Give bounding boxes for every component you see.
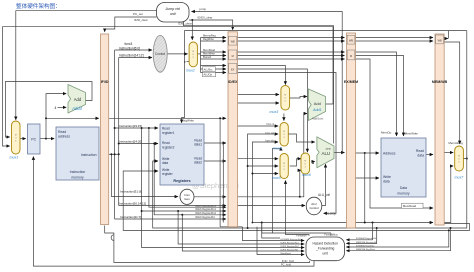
wire Instruction[19:15] to Read register1 [115,127,158,129]
read data to mux7 [445,152,454,154]
svg-text:PC_sel: PC_sel [133,12,143,16]
svg-text:register2: register2 [162,146,175,150]
ALUOp wire to ALU ctrl [238,73,337,214]
EX/MEM write data to data memory [356,177,380,179]
svg-text:ID/EX_clear: ID/EX_clear [198,16,213,20]
svg-text:Add1: Add1 [312,108,322,112]
wire bubble select to mux2 [191,20,193,40]
mux1 (PC source) [12,121,21,154]
wire mux1 to PC [20,138,26,140]
svg-text:ID/EX.RegisterRs1: ID/EX.RegisterRs1 [281,241,300,244]
svg-text:data: data [383,180,390,184]
svg-text:Instruction[19:15]: Instruction[19:15] [119,124,142,128]
svg-text:EX/MEM.RegisterRd: EX/MEM.RegisterRd [356,237,377,240]
svg-text:EX/MEM.RegWrite: EX/MEM.RegWrite [356,244,375,247]
instruction trunk wire 3 [110,154,112,196]
WB signals EX/MEM to MEM/WB [356,37,434,39]
svg-text:WB: WB [231,41,235,44]
ALUSrc to mux6 [238,66,286,85]
hazard unit inputs from ID/EX fields [242,227,304,241]
wire IF/ID_clear from Jump ctrl unit to IF/ID register [105,17,157,32]
svg-text:MemWrite: MemWrite [203,52,215,56]
svg-text:WB: WB [349,40,353,43]
svg-text:ALU_ctrl: ALU_ctrl [318,193,331,197]
WB signals ID/EX to EX/MEM [238,37,345,39]
wire Imm Gen to ID/EX [194,196,226,198]
svg-text:ID/EX.RegisterRs2: ID/EX.RegisterRs2 [195,212,217,215]
svg-text:ALU: ALU [322,151,331,156]
svg-text:Control: Control [155,52,166,56]
wire PC_sel from Jump ctrl unit to mux1 [16,11,157,120]
svg-text:EX: EX [231,68,235,71]
instruction trunk wire 2 [118,58,120,206]
svg-text:MemWrite: MemWrite [405,132,419,136]
pipeline register IF/ID [101,34,109,225]
ALU result bypass to MEM/WB [365,153,433,223]
svg-text:from rs: from rs [266,123,275,126]
forwarded from wb to mux4 [248,134,279,228]
wire PC to Add [46,94,66,119]
hop over [111,235,114,241]
svg-text:jump: jump [325,148,332,151]
ALU ctrl function input [238,205,306,207]
svg-text:MEM/WB.RegWrite: MEM/WB.RegWrite [356,248,376,251]
constant 4 into Add [58,106,67,108]
ALU output to EX/MEM [334,152,345,154]
svg-text:ID/EX.RegisterRs1: ID/EX.RegisterRs1 [195,208,217,211]
svg-text:MemRead: MemRead [281,253,292,255]
wire Instruction[6:0] to Control [115,49,152,51]
registers file [160,124,204,185]
wire rs1 tap to ID/EX [142,128,226,211]
svg-text:MEM/WB: MEM/WB [432,80,448,84]
register PC [28,124,41,154]
mux7 output writeback [153,159,467,229]
svg-text:mux2: mux2 [186,69,195,73]
wire Instruction[24:20] to Read register2 [119,143,158,145]
svg-text:M: M [350,55,352,58]
svg-text:M: M [192,51,194,53]
ALU ctrl output to ALU [322,164,326,205]
svg-text:mux5: mux5 [272,176,281,180]
M signals ID/EX to EX/MEM [238,51,345,53]
wire Control to mux2 [167,53,187,55]
MEM/WB RegisterRd feedback to write register [123,171,469,230]
svg-text:IF/ID_hold: IF/ID_hold [282,259,295,263]
svg-text:memory: memory [71,176,84,180]
MemOp / MemWrite to data memory [356,52,397,136]
svg-text:MemOp: MemOp [381,130,392,134]
wire branch target feedback from AddSum to mux1 [326,27,334,104]
svg-text:from wb: from wb [265,132,275,135]
svg-text:Read: Read [416,149,424,153]
svg-text:mux3: mux3 [270,110,279,114]
EX/MEM WB box [347,35,355,44]
wire jump from ALU output to Jump ctrl unit [192,12,343,153]
svg-text:IF/ID: IF/ID [101,80,109,84]
svg-text:MemRead: MemRead [203,48,216,52]
svg-text:PC_hold: PC_hold [281,263,292,267]
mux4 (forward A) [280,123,288,147]
PC hold output [33,157,314,267]
svg-text:PC: PC [31,138,36,142]
svg-text:整体硬件架构图：: 整体硬件架构图： [16,2,61,10]
ALU result to mux7 [445,166,454,223]
svg-text:unit: unit [170,12,177,16]
long vertical beside ID/EX 1 [219,118,221,227]
svg-text:RegWrite: RegWrite [203,37,214,41]
svg-text:M: M [232,55,234,58]
mux6 (ALUSrc) [301,153,310,174]
control unit [153,35,167,72]
svg-text:address: address [58,135,70,139]
mux5 (forward B) [280,154,288,179]
svg-text:register: register [162,172,174,176]
svg-text:IF/ID_clear: IF/ID_clear [134,18,148,22]
svg-text:MEM/WB.RegisterRd: MEM/WB.RegisterRd [356,241,378,244]
svg-text:jump: jump [199,7,207,11]
svg-text:M: M [458,155,460,157]
svg-text:Add4: Add4 [71,106,82,111]
ID/EX WB box [229,36,237,45]
svg-text:ID/EX: ID/EX [228,80,238,84]
svg-text:Write: Write [383,175,391,179]
svg-text:M: M [283,131,285,133]
svg-text:4: 4 [55,106,57,110]
svg-text:data: data [162,161,168,165]
svg-text:mux7: mux7 [455,176,465,180]
imm to AddSum [238,114,308,197]
wire EXE_clear from Jump ctrl unit to EX stage [184,22,334,144]
imm gen [180,189,194,204]
EX/MEM value feedback to forward muxes [252,222,364,224]
wire WB bundle right side down [449,30,467,32]
svg-text:EX/MEM: EX/MEM [344,80,358,84]
svg-text:data2: data2 [194,161,202,165]
wire read data2 to mux5 [238,158,279,160]
instruction trunk wire 1 [114,50,116,219]
svg-text:ID/EX.RegisterRd: ID/EX.RegisterRd [195,216,215,219]
svg-text:memory: memory [397,192,410,196]
mux3 to AddSum [290,97,307,99]
svg-text:Address: Address [383,152,396,156]
wire PC value into ID/EX [109,117,226,119]
svg-text:Control: Control [309,206,318,210]
svg-text:Add: Add [314,101,321,106]
mux6 to ALU input2 [312,162,315,164]
svg-text:ALUSrc: ALUSrc [204,67,214,71]
svg-text:ALUOp: ALUOp [326,211,337,215]
wire Read data1 to ID/EX [204,142,226,144]
wire PC to instruction memory [40,138,54,140]
wire Instruction[14:12] to Control [119,57,152,59]
svg-text:M: M [304,160,306,162]
svg-text:Branch: Branch [203,55,212,59]
hazard unit inputs right side [346,223,372,240]
wire Instruction[11:7] to ID/EX [115,218,226,220]
MemRead signal line [356,59,434,208]
mux4 to ALU input1 [288,134,314,142]
horizontal ties at bottom of ID/EX [220,226,242,228]
wire Instruction[31:0] to Imm Gen [111,196,178,198]
forwarded wb to mux5 [248,165,279,167]
svg-text:data1: data1 [194,143,202,147]
svg-text:AddSum: AddSum [312,117,324,121]
long vertical beside ID/EX 2 [222,143,224,223]
ID/EX M box [229,50,237,60]
svg-text:M: M [283,163,285,165]
svg-text:mux6: mux6 [302,173,311,177]
MEM/WB WB box [436,35,444,44]
svg-text:ID/EX.RegisterRd: ID/EX.RegisterRd [281,248,299,251]
svg-text:ForwardA: ForwardA [296,235,307,238]
svg-text:Instruction[14:12]: Instruction[14:12] [119,54,144,58]
pipeline register EX/MEM [347,33,356,228]
jump ctrl unit [157,3,190,23]
svg-text:from alu: from alu [265,140,275,143]
svg-text:EX/MEM.RegisterRd: EX/MEM.RegisterRd [281,238,302,241]
forwarded mem to mux5 [252,173,278,175]
svg-text:register1: register1 [162,131,175,135]
svg-text:data: data [417,154,424,158]
svg-text:ForwardMux: ForwardMux [324,234,338,237]
wire PC to IF/ID [46,118,99,138]
svg-text:Add: Add [74,97,82,102]
instruction output wire [109,153,119,155]
svg-text:Gen: Gen [184,197,190,201]
svg-text:mux4: mux4 [273,147,282,151]
EX/MEM M box [347,50,355,60]
svg-text:MemtoReg: MemtoReg [449,141,464,145]
mux2 (control bubble) [189,42,197,67]
control signals mux2 to ID/EX WB/M/EX boxes [200,38,202,73]
mux4 top select stub [283,114,285,121]
mux6 select from EX box [238,69,308,152]
svg-text:Registers: Registers [173,179,190,183]
svg-text:WB: WB [438,39,442,42]
svg-text:Instruction[6:0]: Instruction[6:0] [119,46,140,50]
svg-text:Data: Data [400,186,407,190]
mux7 (MemtoReg) [455,146,464,171]
svg-text:M: M [284,95,286,97]
ALU control [306,197,322,215]
data memory read data to MEM/WB [426,154,433,156]
mux4 select from forwarding unit [273,147,281,233]
MemtoReg select to mux7 [445,42,460,144]
wire read data1 to mux4 [238,125,279,127]
svg-text:ID/EX.RegisterRs2: ID/EX.RegisterRs2 [281,245,300,248]
wire rs1 value to mux3 [238,102,280,104]
pipeline register MEM/WB [435,34,444,225]
wire RegWrite feedback from MEM/WB to Registers [445,38,448,40]
wire rs1/rs2 down to hazard unit [142,211,305,248]
wire Read data2 to ID/EX [204,160,226,162]
svg-text:unit: unit [323,251,328,255]
wire PC to mux3 [238,94,280,96]
data memory [381,138,426,197]
zero input to mux2 [187,61,190,63]
svg-text:MemtoReg: MemtoReg [203,34,216,38]
svg-text:_Forwarding: _Forwarding [315,246,334,250]
adder AddSum (branch target) [309,89,326,121]
IF/ID hold output [105,226,310,263]
wire Instruction[30,14:12] to ID/EX [119,205,226,207]
forward select outputs [286,181,310,236]
WB value feedback to forward muxes [247,227,249,229]
svg-text:Hazard Detection: Hazard Detection [312,241,338,245]
wire Add4 output feedback to mux1 [6,82,93,138]
svg-text:mux1: mux1 [10,155,19,159]
svg-text:Instruction: Instruction [81,153,97,157]
svg-text:RegWrite: RegWrite [182,118,195,122]
svg-text:Instruction[24:20]: Instruction[24:20] [119,140,142,144]
instruction memory [56,127,99,180]
imm to mux6 [300,170,301,197]
ID/EX EX box [229,63,237,73]
hazard detection / forwarding unit [306,237,345,261]
svg-text:Jump ctrl: Jump ctrl [164,7,180,11]
adder Add4 [68,85,86,114]
svg-text:M: M [15,134,17,136]
EX/MEM ALU result to data memory address [356,152,380,154]
mux5 to mux6 [290,159,301,166]
svg-text:ALUOp: ALUOp [204,73,213,77]
wire ID/EX_clear from Jump ctrl unit to ID/EX register [189,20,233,30]
forwarded from mem to mux4 [252,142,278,223]
mux3 (branch base) [281,86,290,111]
svg-text:MemRead: MemRead [403,204,417,208]
svg-text:Read: Read [58,130,66,134]
pipeline register ID/EX [228,32,238,227]
wire instruction memory to IF/ID [98,154,100,156]
svg-text:Instruction: Instruction [70,170,86,174]
wire rs2 tap to ID/EX [154,144,226,215]
ALU [317,137,334,168]
